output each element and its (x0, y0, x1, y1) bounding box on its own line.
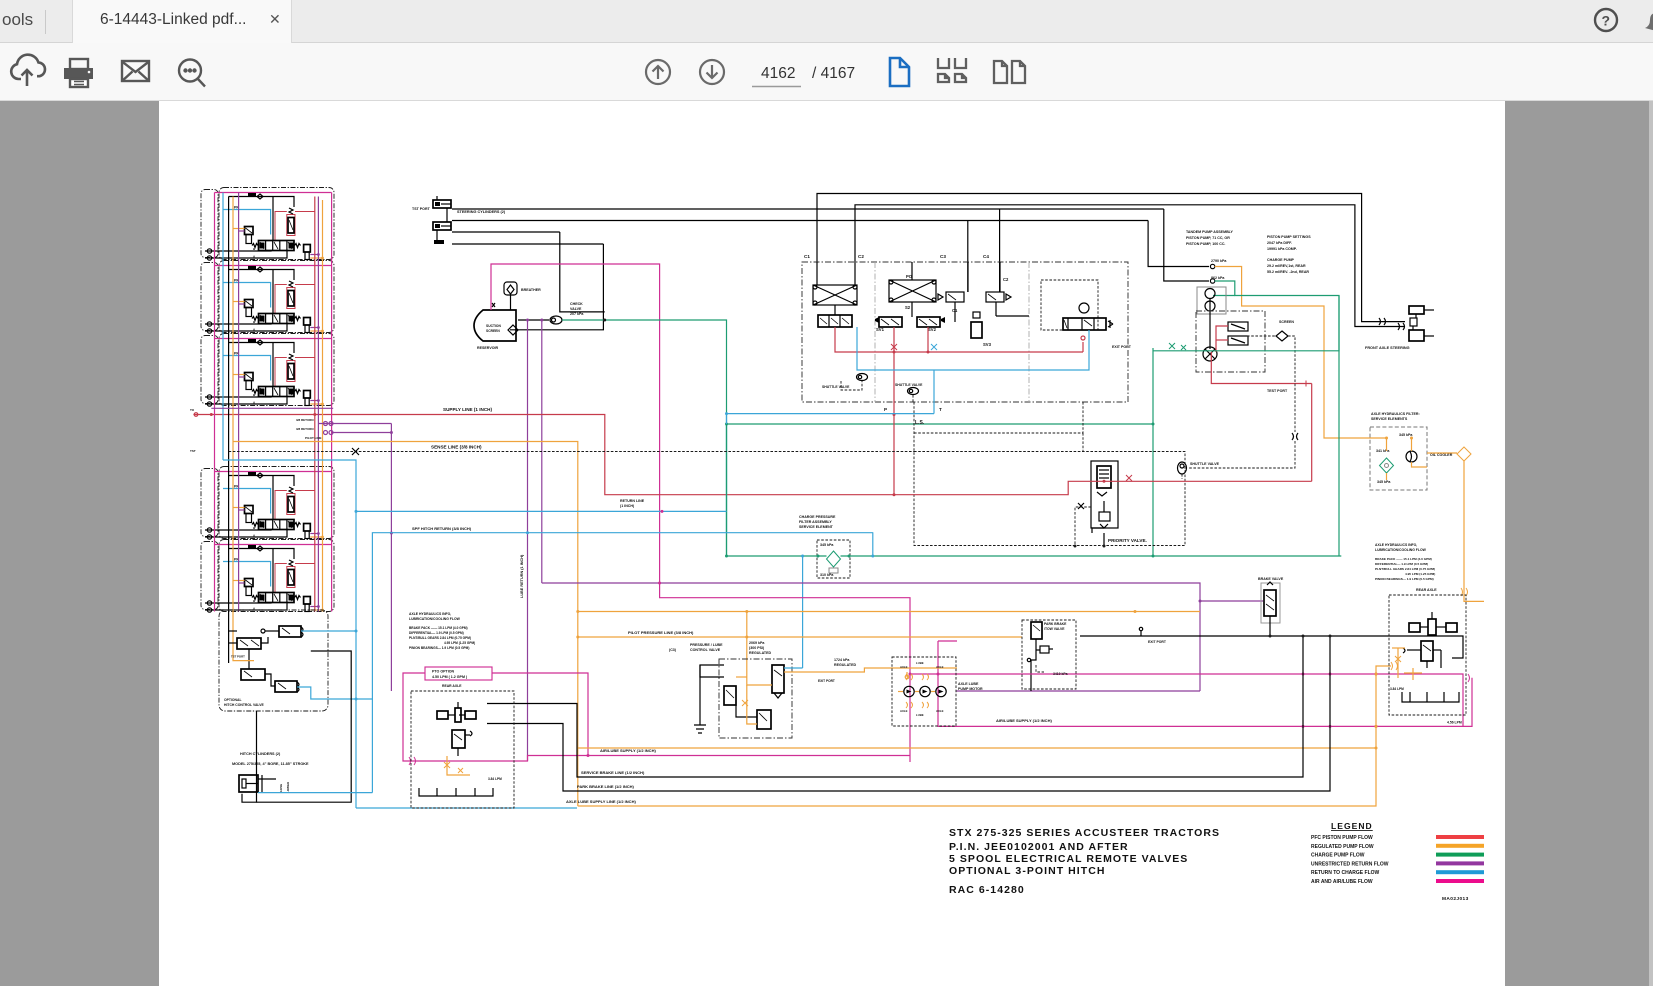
svg-text:DIFFERENTIAL— 1.9 LPM (0.5 GPM: DIFFERENTIAL— 1.9 LPM (0.5 GPM) (1375, 562, 1428, 566)
page grid view icon (938, 58, 966, 82)
axle lube pump motor box (892, 657, 956, 726)
svg-text:SHUTTLE VALVE: SHUTTLE VALVE (895, 383, 923, 387)
svg-text:TST PORT: TST PORT (412, 207, 431, 211)
svg-text:(300 PSI): (300 PSI) (749, 646, 765, 650)
svg-text:AXLE HYDRAULICS FILTER:: AXLE HYDRAULICS FILTER: (1371, 412, 1420, 416)
wire steering cylinder port B to C4 and pump (452, 220, 1148, 222)
wire steering line L1 (C1 to front axle) (817, 194, 1405, 322)
svg-text:C4: C4 (983, 254, 989, 259)
svg-text:3/8 RETURN: 3/8 RETURN (296, 427, 314, 431)
svg-text:2790 kPa: 2790 kPa (1211, 259, 1227, 263)
svg-text:AIR/LUBE SUPPLY (1/2 INCH): AIR/LUBE SUPPLY (1/2 INCH) (996, 718, 1052, 723)
svg-text:STEERING CYLINDERS (2): STEERING CYLINDERS (2) (457, 210, 506, 214)
plcv reducing valve (757, 710, 771, 729)
svg-text:SV2: SV2 (928, 327, 937, 332)
svg-text:CHECK: CHECK (570, 302, 583, 306)
svg-text:REGULATED: REGULATED (834, 663, 856, 667)
svg-text:345 kPa: 345 kPa (1399, 433, 1413, 437)
svg-text:TEST PORT: TEST PORT (1267, 389, 1288, 393)
single page icon (blue) (890, 58, 909, 86)
hitch lower valve (275, 681, 297, 692)
park brake valve element (1031, 622, 1042, 639)
svg-text:RETURN LINE: RETURN LINE (620, 499, 645, 503)
svg-text:STX 275-325 SERIES ACCUSTEE: STX 275-325 SERIES ACCUSTEER TRACTORS (949, 827, 1220, 839)
remote valve sections x5 (201, 188, 334, 613)
stack vertical red right (314, 197, 316, 612)
tandem piston pump assembly box (1196, 311, 1265, 372)
wire pink pto to header (492, 673, 588, 756)
PO pilot operator (889, 280, 936, 302)
svg-text:AXLE: AXLE (900, 665, 908, 669)
svg-text:AIR AND AIR/LUBE FLOW: AIR AND AIR/LUBE FLOW (1311, 879, 1373, 885)
svg-text:LEGEND: LEGEND (1331, 821, 1373, 831)
group divider purple (211, 407, 333, 409)
svg-text:4.56 LPM: 4.56 LPM (1447, 721, 1462, 725)
svg-text:P.I.N. JEE0102001 AND AFTER: P.I.N. JEE0102001 AND AFTER (949, 841, 1129, 853)
svg-text:PUMP MOTOR: PUMP MOTOR (958, 687, 983, 691)
plcv main valve (772, 665, 784, 693)
svg-text:AXLE LUBE SUPPLY LINE (1/2 INC: AXLE LUBE SUPPLY LINE (1/2 INCH) (566, 799, 636, 804)
two page view icon (994, 61, 1025, 83)
wire suction line to pump (518, 319, 549, 321)
svg-text:3/8 RETURN: 3/8 RETURN (296, 418, 314, 422)
rear axle sump (1402, 692, 1459, 702)
svg-text:PRESSURE / LUBE: PRESSURE / LUBE (690, 643, 723, 647)
svg-text:PISTON PUMP, 71 CC, OR: PISTON PUMP, 71 CC, OR (1186, 236, 1230, 240)
wire orange secondary supply (578, 747, 1376, 749)
svg-text:2047 kPa DIFF.: 2047 kPa DIFF. (1267, 241, 1292, 245)
white pdf page (159, 101, 1505, 986)
wire orange regulated out (784, 668, 957, 672)
svg-text:RESERVOIR: RESERVOIR (477, 346, 499, 350)
svg-text:HITCH CONTROL VALVE: HITCH CONTROL VALVE (224, 703, 264, 707)
hitch control valve box (219, 610, 328, 711)
svg-text:OPTIONAL 3-POINT HITCH: OPTIONAL 3-POINT HITCH (949, 865, 1106, 877)
svg-text:AXLE: AXLE (936, 665, 944, 669)
svg-text:REAR AXLE: REAR AXLE (1416, 588, 1437, 592)
wire LS dashed down to priority valve (913, 402, 915, 452)
wire cyan hitch work lines (301, 630, 356, 632)
svg-text:(1 INCH): (1 INCH) (620, 504, 635, 508)
priority valve box (914, 452, 1185, 546)
svg-text:TST PORT: TST PORT (231, 655, 245, 659)
svg-text:RAC 6-14280: RAC 6-14280 (949, 884, 1025, 896)
svg-text:C2: C2 (1003, 277, 1009, 282)
svg-text:LUBE RETURN (1 INCH): LUBE RETURN (1 INCH) (520, 554, 524, 598)
svg-text:SCREEN: SCREEN (1279, 320, 1294, 324)
svg-text:PILOT PRESSURE LINE (3/8 INCH): PILOT PRESSURE LINE (3/8 INCH) (628, 630, 694, 635)
svg-text:SERVICE BRAKE LINE (1/2 INCH): SERVICE BRAKE LINE (1/2 INCH) (581, 770, 645, 775)
svg-text:207 kPa: 207 kPa (570, 312, 584, 316)
svg-text:EXIT PORT: EXIT PORT (818, 679, 835, 683)
browser tab bar (0, 0, 1653, 43)
svg-text:RETURN TO CHARGE FLOW: RETURN TO CHARGE FLOW (1311, 870, 1380, 876)
svg-text:OPTIONAL: OPTIONAL (224, 698, 242, 702)
stack vertical orange right (322, 200, 324, 612)
wire green overlay charge vertical (726, 424, 728, 555)
svg-text:AXLE HYDRAULICS INFO,: AXLE HYDRAULICS INFO, (409, 612, 451, 616)
wire cyan remote return net (857, 327, 1089, 370)
rear axle left box (411, 691, 514, 808)
stack vertical purple right (317, 197, 319, 612)
hitch raise valve (279, 626, 301, 637)
svg-text:PINION BEARINGS— 1.9 LPM (0.5: PINION BEARINGS— 1.9 LPM (0.5 GPM) (1375, 577, 1434, 581)
svg-text:19991 kPa COMP.: 19991 kPa COMP. (1267, 247, 1297, 251)
svg-text:29.2 ml/REV,1st, REAR: 29.2 ml/REV,1st, REAR (1267, 264, 1306, 268)
svg-text:CHARGE PUMP FLOW: CHARGE PUMP FLOW (1311, 853, 1365, 859)
svg-text:CONTROL VALVE: CONTROL VALVE (690, 648, 721, 652)
svg-text:REGULATED PUMP FLOW: REGULATED PUMP FLOW (1311, 844, 1374, 850)
front axle steering cylinder (1409, 306, 1424, 314)
check valve 207 kPa (550, 316, 562, 324)
wire red remote supply net (835, 327, 1083, 352)
svg-text:PARK BRAKE LINE (1/2 INCH): PARK BRAKE LINE (1/2 INCH) (577, 784, 634, 789)
svg-text:1724 kPa: 1724 kPa (834, 658, 850, 662)
wire orange brake feed (578, 611, 1200, 613)
toolbar (0, 43, 1653, 101)
wire pink lube header (660, 583, 910, 762)
wire black brake supply to rear axle (1080, 636, 1463, 658)
email icon (122, 61, 149, 81)
svg-text:MODEL 275/325, 4" BORE, 11.85": MODEL 275/325, 4" BORE, 11.85" STROKE (232, 762, 309, 766)
svg-text:4.95 LPM (1.25 GPM): 4.95 LPM (1.25 GPM) (1405, 572, 1435, 576)
svg-text:SV3: SV3 (983, 342, 992, 347)
svg-text:3419 kPa: 3419 kPa (1053, 672, 1068, 676)
check valve C2 (986, 292, 1004, 302)
wire hitch cylinder lines (242, 711, 257, 802)
svg-text:MA02J013: MA02J013 (1442, 896, 1469, 902)
pressure lube control valve box (719, 659, 792, 738)
pump displacement control left (813, 285, 857, 305)
plcv black links (700, 665, 724, 725)
svg-text:S2: S2 (905, 305, 911, 310)
svg-text:L.S.: L.S. (915, 420, 925, 426)
svg-text:FILTER ASSEMBLY: FILTER ASSEMBLY (799, 520, 832, 524)
wire black dashed sense line (229, 451, 914, 453)
svg-text:SV1: SV1 (876, 327, 885, 332)
wire pink pto option (425, 667, 492, 680)
svg-text:SHUTTLE VALVE: SHUTTLE VALVE (1190, 462, 1220, 466)
wire red supply line (1 inch) (193, 415, 1311, 495)
svg-text:PISTON PUMP SETTINGS: PISTON PUMP SETTINGS (1267, 235, 1311, 239)
page up icon (646, 60, 670, 84)
svg-text:TANDEM PUMP ASSEMBLY: TANDEM PUMP ASSEMBLY (1186, 230, 1234, 234)
wire purple returns to reservoir line (527, 320, 529, 761)
wire purple return line couplers 2 (332, 432, 392, 434)
svg-text:SERVICE ELEMENTS: SERVICE ELEMENTS (1371, 417, 1408, 421)
charge pump assembly circles (1197, 287, 1226, 314)
wire purple to brake valve (1200, 600, 1263, 602)
wire pink lube to pump motors (938, 641, 1472, 726)
svg-text:REAR AXLE: REAR AXLE (442, 684, 462, 688)
stack vertical cyan (222, 193, 224, 461)
svg-text:LUBE: LUBE (916, 661, 924, 665)
wire orange pilot supply line (233, 442, 578, 807)
svg-text:VALVE: VALVE (570, 307, 582, 311)
svg-text:CHARGE PRESSURE: CHARGE PRESSURE (799, 515, 836, 519)
valve block left (818, 315, 852, 327)
svg-text:C3: C3 (940, 254, 946, 259)
wire green charge return header (726, 424, 728, 426)
wire steering line L2 (C2 to front axle) (855, 205, 1405, 327)
hitch box internal wires (229, 630, 237, 632)
svg-text:PFC PISTON PUMP FLOW: PFC PISTON PUMP FLOW (1311, 835, 1373, 841)
svg-text:C2: C2 (858, 254, 864, 259)
svg-text:TO: TO (190, 408, 195, 412)
svg-text:LUBRICATION/COOLING FLOW: LUBRICATION/COOLING FLOW (409, 617, 461, 621)
svg-text:SENSE LINE (3/8 INCH): SENSE LINE (3/8 INCH) (431, 445, 482, 450)
left axle sump (419, 788, 493, 796)
svg-text:UNRESTRICTED RETURN FLOW: UNRESTRICTED RETURN FLOW (1311, 861, 1389, 867)
svg-text:CHARGE PUMP: CHARGE PUMP (1267, 258, 1295, 262)
svg-text:LUBRICATION/COOLING FLOW: LUBRICATION/COOLING FLOW (1375, 548, 1427, 552)
wire cyan return-to-charge drops (872, 532, 874, 556)
wire red pump outlet to test port riser (1211, 352, 1311, 384)
svg-text:AXLE: AXLE (936, 709, 944, 713)
svg-text:SHUTTLE VALVE: SHUTTLE VALVE (822, 385, 850, 389)
wire pump relief test lines to tandem pump (452, 231, 560, 233)
wire purple lube return to brake valve (542, 583, 1200, 691)
wire green charge line through filter (727, 555, 827, 557)
svg-text:345 kPa: 345 kPa (1377, 480, 1391, 484)
svg-text:PARK BRAKE: PARK BRAKE (1044, 622, 1067, 626)
svg-text:LUBE: LUBE (916, 713, 924, 717)
svg-text:BRAKE VALVE: BRAKE VALVE (1258, 577, 1284, 581)
wire purple riser to axle circuits (390, 424, 392, 692)
wire orange axle lube supply bottom (578, 666, 1391, 806)
page down icon (700, 60, 724, 84)
axle shaft symbol right (1409, 623, 1420, 632)
left axle orange bits (447, 756, 470, 775)
wire green 862kPa charge line (1215, 281, 1339, 556)
svg-text:RAISE: RAISE (279, 784, 283, 793)
svg-text:55.2 ml/REV. -2nd, REAR: 55.2 ml/REV. -2nd, REAR (1267, 270, 1309, 274)
svg-text:P: P (884, 407, 887, 412)
help icon (1592, 6, 1622, 36)
svg-text:3.84 LPM: 3.84 LPM (488, 777, 502, 781)
plcv left element (724, 686, 736, 705)
svg-text:PTO OPTION: PTO OPTION (432, 670, 455, 674)
shuttle valve right (1178, 462, 1187, 474)
svg-text:EXIT PORT: EXIT PORT (1148, 640, 1167, 644)
wire pump pressure gauge stubs (1148, 221, 1209, 267)
wire green charge supply from check valve (562, 320, 727, 556)
printer icon (64, 59, 93, 87)
svg-text:5 SPOOL ELECTRICAL REMOTE: 5 SPOOL ELECTRICAL REMOTE VALVES (949, 853, 1188, 865)
svg-text:PLNT/BULL GEARS 2.84 LPM (0.75: PLNT/BULL GEARS 2.84 LPM (0.75 GPM) (1375, 567, 1435, 571)
wire orange branch to pressure lube valve (746, 612, 748, 670)
stack vertical pink right (331, 193, 333, 612)
partial right icon (1643, 8, 1653, 34)
rear axle right box (1389, 595, 1466, 715)
piston pump circle symbol (1203, 347, 1217, 361)
rear axle orange manifold (1397, 648, 1399, 678)
wire orange 2790kPa to axle filter (1215, 267, 1368, 439)
svg-text:BRAKE PACK —— 15.1 LPM (4.0 GP: BRAKE PACK —— 15.1 LPM (4.0 GPM) (1375, 557, 1432, 561)
wire dashed screen drain to shuttle (1288, 336, 1295, 432)
relief SV3 (971, 322, 982, 338)
charge pressure filter box (817, 540, 850, 578)
rear axle left valve (452, 730, 465, 748)
shuttle valve small 2 (908, 388, 919, 395)
park brake tow valve box (1022, 620, 1076, 689)
svg-text:AIR/LUBE SUPPLY (1/2 INCH): AIR/LUBE SUPPLY (1/2 INCH) (600, 748, 656, 753)
wire cyan return line 1 inch (356, 510, 727, 512)
svg-text:PLNT/BULL GEARS 2.84 LPM (0.7: PLNT/BULL GEARS 2.84 LPM (0.75 GPM) (409, 636, 471, 640)
solenoid valve SV1 (879, 317, 902, 327)
wire orange pilot pressure line (578, 636, 1022, 638)
pressure compensator valve right (1041, 280, 1098, 330)
svg-text:AXLE LUBE: AXLE LUBE (958, 682, 979, 686)
wire pink axle supply right (910, 674, 1463, 726)
axle hydraulics filter box (1370, 427, 1427, 490)
wire purple park brake bottom link (956, 690, 1200, 692)
wire black park brake line (487, 636, 1330, 791)
solenoid valve SV2 (917, 317, 940, 327)
svg-text:FRONT AXLE STEERING: FRONT AXLE STEERING (1365, 346, 1410, 350)
wire green charge supply right link (1153, 296, 1339, 351)
svg-text:PISTON PUMP, 100 CC.: PISTON PUMP, 100 CC. (1186, 242, 1225, 246)
svg-text:SPF HITCH RETURN (3/8 INCH): SPF HITCH RETURN (3/8 INCH) (412, 526, 472, 531)
axle shaft symbol left (437, 711, 448, 719)
stack vertical purple (238, 193, 240, 612)
svg-text:DIFFERENTIAL— 1.9 LPM (0.5 G: DIFFERENTIAL— 1.9 LPM (0.5 GPM) (409, 631, 464, 635)
svg-text:PINION BEARINGS— 1.9 LPM (0.5: PINION BEARINGS— 1.9 LPM (0.5 GPM) (409, 646, 469, 650)
svg-text:4.50 LPM ( 1.2 GPM ): 4.50 LPM ( 1.2 GPM ) (432, 675, 468, 679)
svg-text:341 kPa: 341 kPa (1376, 449, 1390, 453)
svg-text:SERVICE ELEMENT: SERVICE ELEMENT (799, 525, 834, 529)
svg-text:3.84 LPM: 3.84 LPM (1390, 687, 1404, 691)
wire orange cooler to rear axle (1464, 461, 1484, 601)
wire steering cylinder port A to C3 and pump (452, 208, 1164, 210)
svg-text:PILOT LINE: PILOT LINE (305, 436, 322, 440)
wire magenta reservoir return riser (491, 264, 660, 583)
wire cyan spf hitch return (372, 533, 872, 793)
hitch solenoid valve 2 (237, 638, 261, 649)
pump motor circles (904, 686, 914, 696)
svg-text:REGULATED: REGULATED (749, 651, 771, 655)
stack vertical black (228, 197, 230, 664)
wire green LS exit line (1152, 348, 1154, 556)
zoom out icon (179, 60, 205, 87)
reservoir (474, 310, 516, 341)
svg-text:310 kPa: 310 kPa (820, 573, 834, 577)
svg-text:BREATHER: BREATHER (521, 288, 541, 292)
svg-text:2069 kPa: 2069 kPa (749, 641, 765, 645)
rear axle valve (1421, 641, 1433, 661)
breather (504, 282, 517, 295)
plcv orange internals (747, 669, 772, 685)
svg-text:C1: C1 (804, 254, 810, 259)
priority valve cartridge (1091, 461, 1118, 528)
svg-text:345 kPa: 345 kPa (820, 543, 834, 547)
pump internal red links (1216, 326, 1228, 352)
svg-text:BRAKE PACK —— 15.1 LPM (4.0 G: BRAKE PACK —— 15.1 LPM (4.0 GPM) (409, 626, 468, 630)
wire black service brake line (487, 636, 1303, 777)
dashed pilot links (841, 381, 862, 390)
svg-text:T: T (939, 407, 942, 412)
svg-text:EXIT PORT: EXIT PORT (1112, 345, 1132, 349)
svg-text:862 kPa: 862 kPa (1211, 276, 1225, 280)
shuttle valve small 1 (857, 374, 868, 381)
wire cyan into plcv (784, 667, 803, 669)
check valve C1 (946, 292, 964, 302)
wire black park valve drain (1030, 660, 1032, 691)
wire cyan bottom run (356, 807, 577, 809)
svg-text:HITCH CYLINDERS (2): HITCH CYLINDERS (2) (240, 752, 281, 756)
svg-text:PRIORITY VALVE.: PRIORITY VALVE. (1108, 538, 1147, 543)
svg-text:TST: TST (190, 449, 196, 453)
stack vertical orange (232, 197, 234, 656)
wire cyan stack return (223, 460, 356, 808)
hitch solenoid valve 3 (241, 669, 265, 680)
svg-text:LOWER: LOWER (286, 781, 290, 793)
wire cyan T return header (727, 414, 935, 533)
pump control group box (802, 262, 1128, 402)
svg-text:SCREEN: SCREEN (486, 329, 500, 333)
svg-text:SUCTION: SUCTION (486, 324, 501, 328)
wire purple return line couplers 1 (318, 423, 391, 425)
svg-text:AXLE: AXLE (900, 709, 908, 713)
svg-text:/TOW VALVE: /TOW VALVE (1044, 627, 1065, 631)
stack vertical pink left (214, 193, 216, 409)
save/download cloud icon (11, 55, 45, 86)
orange tst port stub (233, 655, 254, 661)
svg-text:(C3): (C3) (669, 648, 677, 652)
wires pump box internals (967, 262, 969, 292)
filter internal wires (1368, 438, 1387, 451)
svg-text:SUPPLY LINE (1 INCH): SUPPLY LINE (1 INCH) (443, 407, 492, 412)
steering cylinders (2) left (433, 200, 451, 208)
svg-text:4.95 LPM (1.25 GPM): 4.95 LPM (1.25 GPM) (444, 641, 475, 645)
svg-text:AXLE HYDRAULICS INFO,: AXLE HYDRAULICS INFO, (1375, 543, 1417, 547)
